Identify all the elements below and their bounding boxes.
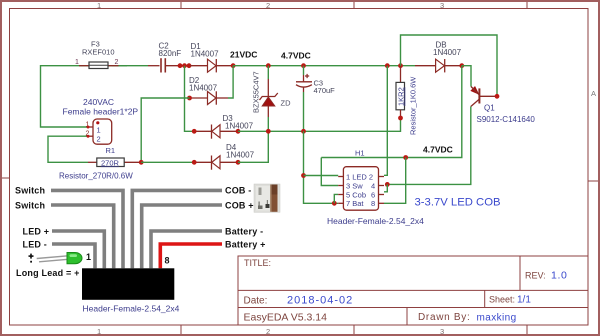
diode D3: [192, 114, 254, 139]
wire Sw net down to H1 pin3: [321, 158, 338, 186]
svg-text:2018-04-02: 2018-04-02: [287, 295, 353, 307]
wire 21VDC rail to DB: [233, 65, 415, 67]
svg-text:1N4007: 1N4007: [189, 84, 218, 93]
svg-text:RXEF010: RXEF010: [82, 48, 115, 57]
node 4.7VDC top: [266, 51, 311, 69]
svg-text:4.7VDC: 4.7VDC: [423, 145, 453, 155]
svg-text:COB -: COB -: [225, 186, 252, 196]
svg-text:270R: 270R: [101, 158, 120, 167]
svg-text:6: 6: [371, 190, 375, 199]
svg-text:Switch: Switch: [15, 186, 45, 196]
resistor R2 1K: [396, 66, 418, 135]
wire battery plus red: [160, 244, 222, 268]
wire D4 anode up to 0V row: [238, 131, 268, 162]
node R1 right: [139, 160, 144, 165]
LED drawing: [37, 253, 82, 264]
svg-text:Date:: Date:: [244, 296, 268, 307]
svg-text:3-3.7V LED COB: 3-3.7V LED COB: [415, 197, 501, 209]
title block: [238, 256, 588, 325]
svg-text:Resistor_1K0.6W: Resistor_1K0.6W: [409, 76, 418, 135]
svg-text:8: 8: [371, 199, 375, 208]
svg-text:TITLE:: TITLE:: [244, 258, 271, 268]
label 3-3.7V LED COB: [415, 197, 501, 209]
svg-text:4.7VDC: 4.7VDC: [281, 51, 311, 61]
node 21VDC: [230, 50, 257, 69]
svg-text:BZX55C4V7: BZX55C4V7: [252, 71, 261, 113]
wire COB plus: [142, 205, 222, 268]
diode DB: [415, 41, 464, 73]
wire C2 to D1 node: [166, 65, 190, 67]
wire node A vertical: [185, 66, 195, 132]
svg-text:2: 2: [266, 327, 270, 336]
wire LED minus: [52, 244, 95, 268]
svg-text:Battery -: Battery -: [225, 227, 263, 237]
LED polarity marks: [29, 254, 34, 263]
wire LED plus: [52, 231, 104, 268]
svg-text:8: 8: [165, 256, 170, 266]
resistor R1: [59, 146, 141, 181]
title block values: [287, 270, 567, 324]
svg-text:COB +: COB +: [225, 201, 254, 211]
wire pin6 elbow: [384, 182, 390, 192]
fuse F3: [75, 40, 119, 69]
header H1 2x4: [327, 149, 424, 227]
svg-text:Drawn By:: Drawn By:: [418, 312, 470, 323]
svg-text:Header-Female-2.54_2x4: Header-Female-2.54_2x4: [327, 216, 424, 226]
svg-text:Female header1*2P: Female header1*2P: [63, 107, 139, 117]
svg-text:7 Bat: 7 Bat: [346, 199, 364, 208]
svg-text:1/1: 1/1: [517, 295, 531, 306]
wire DB node down to Sw net: [321, 66, 462, 158]
svg-text:R1: R1: [106, 146, 116, 155]
title block labels: [244, 258, 546, 324]
svg-text:820nF: 820nF: [159, 49, 182, 58]
capacitor C2: [148, 42, 181, 73]
wire battery minus: [151, 231, 222, 268]
svg-text:2: 2: [266, 1, 270, 10]
wire 0V row D3 to R2: [238, 118, 401, 131]
svg-text:3: 3: [440, 1, 444, 10]
svg-text:3 Sw: 3 Sw: [346, 181, 363, 190]
svg-text:5 Cob: 5 Cob: [346, 190, 366, 199]
wire fuse to C2: [112, 65, 148, 67]
wire COB minus: [132, 190, 222, 268]
svg-text:4: 4: [371, 181, 375, 190]
wire switch 1: [51, 190, 123, 268]
svg-text:1N4007: 1N4007: [191, 50, 220, 59]
svg-text:Header-Female-2.54_2x4: Header-Female-2.54_2x4: [83, 304, 180, 314]
wire D1 cathode down to D2 cathode: [228, 66, 233, 98]
connector 240VAC header: [63, 97, 139, 144]
COB photo thumbnail: [254, 184, 280, 212]
svg-text:EasyEDA V5.3.14: EasyEDA V5.3.14: [244, 312, 328, 324]
harness labels right: [225, 186, 266, 250]
wire pin2 to main rail: [384, 63, 390, 175]
node main rail at R2: [398, 63, 403, 68]
svg-text:Resistor_270R/0.6W: Resistor_270R/0.6W: [59, 172, 133, 181]
svg-text:1N4007: 1N4007: [225, 122, 254, 131]
svg-text:1N4007: 1N4007: [433, 48, 462, 57]
connector block 8pin: [82, 268, 174, 300]
svg-text:3: 3: [440, 327, 444, 336]
wire R1 to D4: [141, 161, 194, 163]
diode D2: [187, 76, 228, 105]
wire C3 node down to H1 pins 1/7: [301, 131, 338, 205]
wire AC line 2 to R1: [48, 136, 88, 162]
svg-text:1 LED 2: 1 LED 2: [346, 172, 373, 181]
diode D4: [192, 143, 255, 170]
svg-text:1: 1: [97, 1, 101, 10]
wire switch 2: [51, 205, 114, 268]
wire AC top rail left: [41, 66, 128, 127]
capacitor C3: [296, 63, 335, 133]
svg-text:1N4007: 1N4007: [226, 151, 255, 160]
svg-text:S9012-C141640: S9012-C141640: [477, 115, 536, 124]
wire H1 pin5 elbow: [334, 194, 338, 203]
svg-text:1: 1: [86, 252, 91, 262]
node 4.7VDC lower label: [423, 145, 453, 155]
svg-text:A: A: [591, 89, 596, 98]
svg-text:Sheet:: Sheet:: [489, 295, 515, 305]
svg-text:LED +: LED +: [23, 227, 50, 237]
transistor Q1 S9012 PNP: [471, 87, 536, 125]
zener diode ZD BZX55C4V7: [252, 66, 292, 134]
wire H1 pin1 to node: [304, 175, 339, 177]
svg-text:Q1: Q1: [484, 104, 495, 113]
svg-text:LED -: LED -: [23, 240, 48, 250]
svg-text:1.0: 1.0: [551, 270, 567, 282]
svg-text:2: 2: [115, 59, 119, 66]
label header female bottom: [83, 304, 180, 314]
svg-text:Switch: Switch: [15, 201, 45, 211]
svg-text:240VAC: 240VAC: [83, 97, 114, 107]
svg-text:2: 2: [97, 135, 101, 144]
wire base rail over R2: [401, 35, 498, 96]
wire R1 node B vertical to D2 anode: [141, 98, 189, 162]
svg-text:Battery +: Battery +: [225, 240, 266, 250]
svg-text:1: 1: [75, 59, 79, 66]
svg-text:1KR2: 1KR2: [397, 87, 406, 106]
svg-text:1: 1: [97, 126, 101, 135]
svg-text:REV:: REV:: [525, 271, 546, 281]
svg-text:maxking: maxking: [477, 313, 517, 324]
node dots at C2/D1 junction: [178, 63, 192, 68]
svg-text:H1: H1: [355, 149, 365, 158]
svg-text:ZD: ZD: [281, 99, 292, 108]
wire pin8 net: [384, 155, 408, 203]
svg-text:1: 1: [97, 327, 101, 336]
wire Q1 collector to H1 pin4: [387, 107, 471, 185]
svg-text:470uF: 470uF: [314, 86, 336, 95]
harness labels left: [15, 186, 170, 279]
wire DB cathode to Q1 emitter: [462, 66, 471, 87]
diode D1: [190, 42, 233, 72]
svg-text:21VDC: 21VDC: [230, 50, 257, 60]
svg-text:Long Lead = +: Long Lead = +: [16, 268, 80, 278]
